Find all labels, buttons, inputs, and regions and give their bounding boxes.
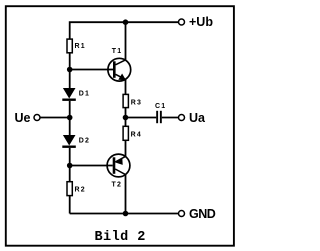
transistor T2 xyxy=(107,154,130,177)
wire base T1 xyxy=(70,69,114,71)
wire node to R2 xyxy=(69,166,71,182)
resistor R3 xyxy=(123,94,128,107)
svg-text:GND: GND xyxy=(189,207,216,221)
diode D1 xyxy=(62,88,76,101)
svg-text:Ua: Ua xyxy=(189,111,206,125)
svg-text:R4: R4 xyxy=(131,131,142,138)
svg-text:T2: T2 xyxy=(112,181,123,188)
wire C1 to Ua terminal xyxy=(162,117,179,119)
wire T2 collector to GND rail xyxy=(125,175,127,214)
resistor R2 xyxy=(67,182,72,196)
svg-text:Ue: Ue xyxy=(15,111,31,125)
svg-text:R1: R1 xyxy=(75,43,86,50)
wire R4 to T2 emitter xyxy=(125,140,127,156)
capacitor C1 xyxy=(156,111,162,123)
svg-text:+Ub: +Ub xyxy=(189,15,213,29)
svg-text:D2: D2 xyxy=(79,137,90,144)
terminal Ue xyxy=(34,115,40,121)
svg-text:Bild 2: Bild 2 xyxy=(95,230,146,245)
node output junction xyxy=(123,115,129,121)
wire node to D2 xyxy=(69,118,71,136)
terminal GND xyxy=(179,211,185,217)
svg-text:D1: D1 xyxy=(79,90,90,97)
node Ue junction xyxy=(67,115,73,121)
node junction T1 base xyxy=(67,67,73,73)
wire GND rail xyxy=(70,213,179,215)
wire R3 to output node xyxy=(125,108,127,118)
svg-text:R3: R3 xyxy=(131,99,142,106)
terminal Ua xyxy=(179,115,185,121)
wire base T2 xyxy=(70,165,113,167)
wire D2 to T2 base node xyxy=(69,148,71,166)
wire output node to C1 xyxy=(126,117,157,119)
wire top rail from R1 top to +Ub terminal xyxy=(70,22,179,39)
svg-text:R2: R2 xyxy=(75,186,86,193)
node junction T2 base xyxy=(67,163,73,169)
node junction top xyxy=(123,19,129,25)
resistor R4 xyxy=(123,126,128,140)
wire R1 to base node xyxy=(69,54,71,70)
wire T1 emitter to R3 xyxy=(125,79,127,94)
wire Ue terminal to node xyxy=(41,117,70,119)
wire R2 to GND rail xyxy=(69,196,71,214)
wire collector T1 vertical xyxy=(125,22,127,60)
svg-text:T1: T1 xyxy=(112,48,123,55)
diode D2 xyxy=(62,135,76,148)
terminal +Ub xyxy=(179,19,185,25)
resistor R1 xyxy=(67,39,72,53)
node junction GND xyxy=(123,211,129,217)
svg-text:C1: C1 xyxy=(155,103,166,110)
wire D1 top xyxy=(69,70,71,89)
wire D1 to Ue node xyxy=(69,101,71,118)
transistor T1 xyxy=(108,58,131,81)
wire output node to R4 xyxy=(125,118,127,127)
